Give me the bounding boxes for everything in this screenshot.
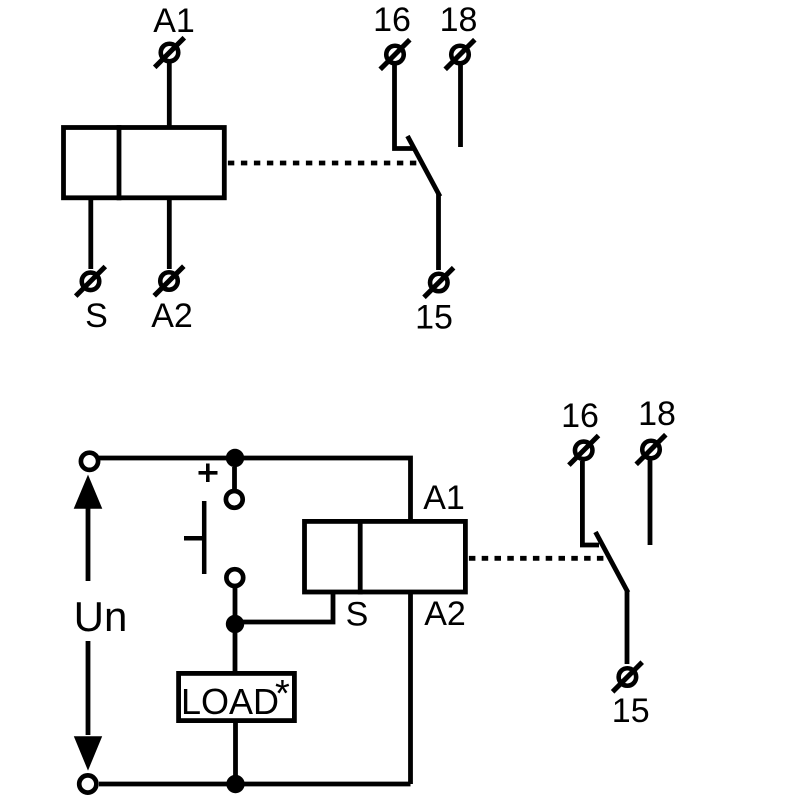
wire junction to push button <box>232 467 237 490</box>
svg-text:*: * <box>275 673 290 715</box>
wire 16 fixed contact (top) <box>395 65 414 149</box>
terminal supply left bottom <box>79 775 96 792</box>
contact blade 15-16 (bottom) <box>596 532 629 593</box>
junction dot middle <box>226 615 244 633</box>
mechanical link dotted line (top) <box>228 161 417 166</box>
svg-text:15: 15 <box>415 299 453 337</box>
terminal 16 (top) <box>380 40 410 70</box>
wire 16 fixed contact (bottom) <box>582 461 599 545</box>
relay coil box (top) <box>64 125 225 200</box>
wire junction to S pin <box>235 592 333 622</box>
contact blade 15-16 (top) <box>408 136 441 197</box>
svg-text:S: S <box>85 297 108 335</box>
svg-text:Un: Un <box>74 593 128 640</box>
terminal S (top) <box>76 267 106 297</box>
terminal 15 (bottom) <box>613 662 643 692</box>
svg-text:16: 16 <box>561 397 599 435</box>
terminal supply left top <box>81 453 98 470</box>
wire push button to junction <box>233 588 238 624</box>
junction dot top rail <box>226 449 244 467</box>
svg-text:18: 18 <box>638 395 676 433</box>
wire blade to 15 (bottom) <box>625 590 630 664</box>
wire top rail <box>99 458 411 521</box>
terminal 16 (bottom) <box>569 436 599 466</box>
down arrow Un <box>74 641 102 771</box>
wire LOAD to bottom rail <box>233 721 238 785</box>
svg-text:A1: A1 <box>423 479 465 517</box>
wire 18 open end (bottom) <box>648 460 653 545</box>
relay coil box (bottom) <box>305 519 466 594</box>
junction dot bottom rail <box>226 775 244 793</box>
push button S (manual switch) <box>184 491 243 586</box>
terminal 15 (top) <box>424 268 454 298</box>
svg-text:S: S <box>346 596 369 634</box>
svg-text:A1: A1 <box>153 2 195 40</box>
svg-text:A2: A2 <box>151 297 193 335</box>
svg-text:16: 16 <box>373 1 411 39</box>
label + <box>199 464 218 483</box>
terminal 18 (top) <box>445 40 475 70</box>
wire 18 open end (top) <box>458 65 463 147</box>
wire bottom rail <box>99 782 411 787</box>
svg-text:LOAD: LOAD <box>181 681 279 722</box>
terminal A2 (top) <box>154 266 184 296</box>
svg-text:15: 15 <box>612 692 650 730</box>
wire A1 to coil box <box>167 63 172 128</box>
up arrow Un <box>74 475 103 581</box>
svg-text:18: 18 <box>440 1 478 39</box>
wire A2 pin (top) <box>167 198 172 269</box>
wire blade to 15 (top) <box>436 194 441 270</box>
terminal 18 (bottom) <box>636 435 666 465</box>
terminal A1 <box>155 38 185 68</box>
wire A2 to bottom rail <box>408 592 413 784</box>
wire S pin (top) <box>88 198 93 269</box>
mechanical link dotted line (bottom) <box>469 556 607 561</box>
LOAD box <box>179 673 295 720</box>
wire junction to LOAD <box>233 624 238 673</box>
svg-text:A2: A2 <box>424 595 466 633</box>
